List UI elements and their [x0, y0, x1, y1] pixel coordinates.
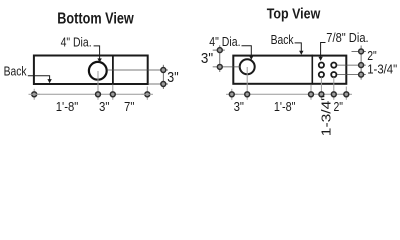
- target marker dim divider (top view): [309, 92, 314, 97]
- svg-text:7": 7": [124, 99, 135, 114]
- right h-tick on dim line (top view): [341, 93, 353, 95]
- svg-text:Back: Back: [271, 32, 294, 47]
- right h-line mid (top view): [337, 64, 366, 66]
- extension below circle center (top view): [246, 67, 248, 100]
- extension below hole col2 (top view): [333, 77, 335, 100]
- target marker dim hole col2 (top view): [331, 92, 336, 97]
- target marker dim divider (bottom view): [110, 92, 115, 97]
- svg-text:3": 3": [99, 99, 110, 114]
- right edge crosshair h-tick (bottom view): [142, 93, 154, 95]
- left vertical dimension line (top view): [219, 45, 221, 72]
- tick below right edge (bottom view): [146, 87, 148, 100]
- target marker dim right edge (top view): [344, 92, 349, 97]
- right h-line top (top view): [352, 50, 366, 52]
- bottom dimension line (top view): [232, 93, 346, 95]
- svg-text:Top View: Top View: [267, 6, 321, 23]
- target marker right-1 (top view): [359, 49, 364, 54]
- tick below left edge (top view): [231, 89, 233, 100]
- tick below left edge (bottom view): [33, 89, 35, 100]
- target marker dim left edge (bottom view): [32, 92, 37, 97]
- svg-text:2": 2": [333, 99, 343, 114]
- target marker dim circle center (bottom view): [96, 92, 101, 97]
- right vertical dimension line (top view): [360, 46, 362, 80]
- 7/8 hole bottom-left: [319, 72, 324, 77]
- leader for Back (top view): [295, 43, 302, 51]
- target marker right-top (bottom view): [161, 68, 166, 73]
- leader for 4" Dia. (top view): [242, 46, 252, 57]
- svg-text:1-3/4": 1-3/4": [318, 95, 333, 136]
- svg-text:4" Dia.: 4" Dia.: [209, 34, 240, 49]
- top view divider line: [311, 55, 313, 85]
- extension below circle center (bottom view): [97, 71, 99, 100]
- right h-line bottom (top view): [337, 74, 366, 76]
- bottom view 4in hole circle: [89, 62, 107, 80]
- svg-text:7/8" Dia.: 7/8" Dia.: [326, 30, 368, 45]
- right side extension line at bottom edge (bottom view): [149, 83, 168, 85]
- right vertical dimension line (bottom view): [162, 65, 164, 89]
- extension below hole col1 (top view): [320, 77, 322, 100]
- bottom view body outline: [34, 56, 148, 85]
- svg-text:Bottom View: Bottom View: [57, 11, 134, 28]
- target marker right-2 (top view): [359, 63, 364, 68]
- bottom dimension line (bottom view): [34, 93, 147, 95]
- left h-tick on dim line (top view): [226, 93, 238, 95]
- left edge crosshair h-tick (bottom view): [29, 93, 41, 95]
- leader for 7/8" Dia.: [321, 43, 326, 58]
- svg-text:1'-8": 1'-8": [56, 99, 79, 114]
- svg-text:Back: Back: [4, 63, 27, 78]
- bottom view divider line: [112, 55, 114, 85]
- svg-text:3": 3": [234, 99, 245, 114]
- top view body outline: [233, 56, 346, 84]
- svg-text:1'-8": 1'-8": [274, 99, 296, 114]
- leader for 4" Dia. (bottom view): [94, 46, 100, 59]
- svg-text:3": 3": [201, 51, 213, 67]
- target marker dim hole col1 (top view): [319, 92, 324, 97]
- target marker left-top (top view): [217, 48, 222, 53]
- right side extension line at circle center (bottom view): [107, 69, 168, 71]
- left center h-line to circle (top view): [213, 66, 241, 68]
- svg-text:3": 3": [167, 70, 178, 86]
- left top h-line (top view): [213, 49, 225, 51]
- top view 4in hole circle: [240, 59, 255, 74]
- tick below right edge (top view): [345, 87, 347, 100]
- target marker right-3 (top view): [359, 72, 364, 77]
- target marker dim left edge (top view): [229, 92, 234, 97]
- target marker dim right edge (bottom view): [145, 92, 150, 97]
- 7/8 hole top-left: [319, 63, 324, 68]
- svg-text:1-3/4": 1-3/4": [367, 61, 397, 76]
- extension below divider (top view): [310, 85, 312, 100]
- target marker left-bottom (top view): [217, 64, 222, 69]
- target marker dim circle (top view): [245, 92, 250, 97]
- 7/8 hole bottom-right: [331, 72, 336, 77]
- svg-text:4" Dia.: 4" Dia.: [61, 34, 92, 49]
- 7/8 hole top-right: [331, 63, 336, 68]
- target marker right-bottom (bottom view): [161, 82, 166, 87]
- extension below divider (bottom view): [112, 85, 114, 100]
- leader for Back (bottom view): [28, 76, 50, 80]
